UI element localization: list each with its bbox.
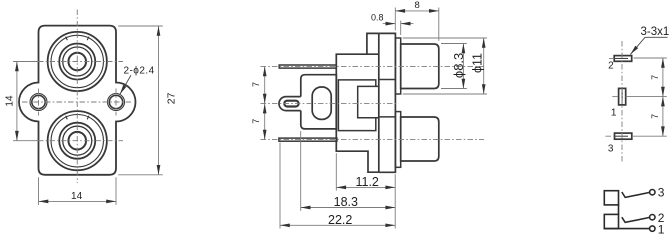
svg-text:7: 7 xyxy=(650,114,660,119)
svg-text:1: 1 xyxy=(658,223,665,236)
svg-text:3-3x1: 3-3x1 xyxy=(641,26,670,38)
svg-text:7: 7 xyxy=(251,119,261,124)
svg-text:3: 3 xyxy=(658,186,665,200)
svg-text:7: 7 xyxy=(251,82,261,87)
svg-text:11.2: 11.2 xyxy=(355,175,378,189)
svg-text:18.3: 18.3 xyxy=(334,195,358,209)
svg-text:2: 2 xyxy=(608,61,614,72)
svg-text:14: 14 xyxy=(71,191,83,202)
svg-text:0.8: 0.8 xyxy=(371,12,384,22)
svg-text:14: 14 xyxy=(5,95,16,107)
svg-text:22.2: 22.2 xyxy=(328,213,352,227)
svg-text:8: 8 xyxy=(415,0,420,11)
svg-text:7: 7 xyxy=(650,75,660,80)
svg-text:2-ϕ2.4: 2-ϕ2.4 xyxy=(124,66,155,77)
svg-text:1: 1 xyxy=(611,107,617,118)
svg-text:ϕ8.3: ϕ8.3 xyxy=(451,53,466,78)
svg-text:ϕ11: ϕ11 xyxy=(470,53,484,73)
svg-text:27: 27 xyxy=(166,92,178,104)
svg-text:3: 3 xyxy=(608,143,614,154)
